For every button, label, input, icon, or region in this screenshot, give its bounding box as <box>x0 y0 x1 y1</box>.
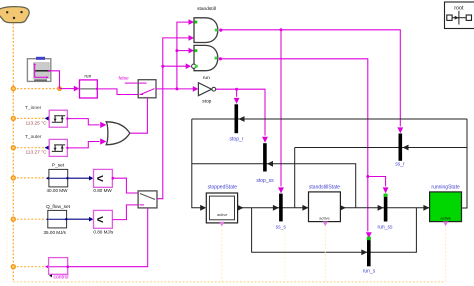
stop_r line <box>192 118 467 120</box>
arrow into ss_r from running <box>403 145 409 151</box>
wire bus->T_inner hysteresis <box>13 117 44 119</box>
wire standstillState.active -> bottom bus (dashed) <box>324 226 326 281</box>
hysteresis block 1 <box>45 110 69 127</box>
transition stop_ss <box>263 143 267 171</box>
arrow onto transition ss_r <box>397 127 403 133</box>
bus junction P_control row <box>11 265 15 269</box>
svg-text:35.00 MJ/s: 35.00 MJ/s <box>44 230 67 235</box>
arrow into stop_r from running <box>239 116 245 122</box>
svg-text:standstillState: standstillState <box>309 184 340 190</box>
wire run -> switch1 <box>97 89 138 95</box>
wire run signal up to AND1.u1 <box>177 22 190 89</box>
arrow into standstillState inPort <box>302 205 308 211</box>
arrow runningState.active output <box>443 222 448 227</box>
wire stoppedState.active -> bottom bus (dashed) <box>221 226 223 281</box>
less1 block <box>94 169 113 187</box>
svg-text:stop_r: stop_r <box>230 136 244 142</box>
svg-text:0.80 MJ/s: 0.80 MJ/s <box>93 230 114 235</box>
wire switch1 -> not gate <box>156 88 194 90</box>
arrow stoppedState.active output <box>219 222 224 227</box>
wire bus->P_control <box>13 266 45 268</box>
wire bus->T_outer hysteresis <box>13 147 44 149</box>
state stoppedState (initial, double border) <box>206 185 237 223</box>
svg-text:run: run <box>203 75 210 81</box>
svg-text:ss_r: ss_r <box>395 162 405 168</box>
wire bus->P_set <box>13 177 46 179</box>
bus junction T_outer row <box>11 146 15 150</box>
less2 block <box>94 210 113 228</box>
bottom orange dashed bus horizontal <box>13 281 445 283</box>
AND gate 1 (standstill) <box>194 6 222 42</box>
run_s loop <box>252 208 417 253</box>
arrow into less2 <box>89 217 93 222</box>
svg-text:stop: stop <box>202 98 211 104</box>
arrow into NOT gate <box>193 86 199 92</box>
main state row wire <box>238 207 429 209</box>
stop_ss line <box>192 164 356 208</box>
wire branch to run_ss <box>368 177 386 187</box>
block run (BooleanPassThrough) <box>80 74 99 98</box>
wire hyst2 -> OR <box>67 142 99 148</box>
wire P_control -> switch2 bottom <box>68 208 148 267</box>
svg-text:113.25 °C: 113.25 °C <box>26 120 48 126</box>
AND gate 2 <box>192 45 222 70</box>
svg-text:40.00 MW: 40.00 MW <box>47 188 69 193</box>
junction on stop signal wire <box>235 88 238 91</box>
wire bus->run row <box>13 88 59 90</box>
junction on AND1 output <box>280 28 283 31</box>
transition ss_r <box>399 134 403 161</box>
wire bus->Q_flow_set <box>13 218 46 220</box>
Q_flow_set block <box>46 210 68 228</box>
wire AND1 output -> ss_r drop <box>222 30 400 127</box>
svg-text:113.27 °C: 113.27 °C <box>26 149 48 155</box>
arrow onto transition stop_r <box>234 98 240 104</box>
arrow onto transition run_s <box>366 232 372 238</box>
junction on run signal wire <box>175 87 178 90</box>
arrow onto transition stop_ss <box>262 137 268 143</box>
switch2 <box>138 191 157 208</box>
arrow onto transition ss_s <box>278 187 284 193</box>
arrow into AND1.u2 <box>189 35 195 41</box>
svg-text:ss_s: ss_s <box>276 225 287 231</box>
wire junction -> run block <box>60 88 76 90</box>
wire AND2 output -> run_s drop <box>222 59 368 232</box>
junction on run signal riser <box>175 49 178 52</box>
arrow onto transition run_ss <box>383 187 389 193</box>
svg-text:run_ss: run_ss <box>377 225 393 231</box>
node less1 output <box>112 177 115 180</box>
wire less2 -> switch2.u3 <box>112 205 138 220</box>
root box top right <box>445 2 474 29</box>
wire less1 -> switch2.u1 <box>112 178 138 193</box>
arrow stoppedState outPort <box>238 205 244 211</box>
svg-text:T_inner: T_inner <box>25 105 42 111</box>
faint pale dashed vertical near left edge <box>6 143 8 281</box>
wire hyst1 -> OR <box>67 119 99 125</box>
arrow into ss_s <box>273 205 279 211</box>
right vertical from runningState <box>462 119 468 208</box>
svg-text:0.80 MW: 0.80 MW <box>93 188 112 193</box>
arrow into run_s <box>361 249 367 255</box>
svg-text:runningState: runningState <box>431 184 460 190</box>
svg-text:standstill: standstill <box>197 6 216 12</box>
arrow into runningState inPort <box>423 205 429 211</box>
wire display -> bus junction <box>49 71 59 89</box>
arrow into less1 <box>89 176 93 181</box>
svg-text:P_set: P_set <box>52 162 65 168</box>
wire NOT output -> stop_ss drop <box>216 89 265 135</box>
svg-text:root: root <box>454 5 464 11</box>
svg-text:active: active <box>217 212 228 217</box>
wire left vertical into stoppedState <box>192 119 201 208</box>
svg-text:<: < <box>97 174 104 186</box>
junction on AND2 output <box>366 175 369 178</box>
transition run_s <box>367 238 371 266</box>
P_set block <box>46 169 69 187</box>
transition stop_r <box>235 104 239 133</box>
wire switch2 out -> up to AND1.u2 <box>157 38 190 199</box>
bus connector icon (expandable connector, top-left) <box>0 7 29 23</box>
junction on switch2 signal <box>161 65 164 68</box>
arrow into OR input 1 <box>100 122 106 128</box>
faint pale dashed vertical below ss_s area <box>284 232 286 281</box>
svg-text:control: control <box>54 275 69 281</box>
arrow into AND2.u1 <box>189 48 195 54</box>
state runningState (active, green) <box>430 184 462 221</box>
svg-text:run_s: run_s <box>363 269 376 275</box>
state standstillState <box>309 184 341 221</box>
arrow into AND1.u1 <box>189 19 195 25</box>
wire Q_flow_set -> less2 <box>67 218 90 220</box>
wire branch to AND2.u2 <box>163 65 187 67</box>
main orange dashed bus vertical <box>12 23 14 282</box>
wire drop to stop_r <box>236 89 238 97</box>
arrow into run block <box>74 86 80 92</box>
bus junction at display drop <box>58 87 62 91</box>
svg-text:T_outer: T_outer <box>25 134 42 140</box>
arrow into stop_ss from standstill <box>267 161 273 167</box>
bus junction run row <box>11 87 15 91</box>
bus junction P_set row <box>11 176 15 180</box>
switch1 (logical switch) <box>138 80 156 98</box>
arrow into stoppedState inPort <box>200 205 206 211</box>
bus junction T_inner row <box>11 116 15 120</box>
svg-text:stoppedState: stoppedState <box>208 185 238 191</box>
svg-text:run: run <box>84 74 91 80</box>
svg-text:active: active <box>319 216 330 221</box>
wire branch to AND2.u1 <box>177 50 190 52</box>
P_control block <box>45 258 69 281</box>
transition ss_s <box>279 194 283 222</box>
NOT gate (stop) <box>198 75 215 105</box>
wire runningState.active -> bottom bus (dashed) <box>445 226 447 281</box>
hysteresis block 2 <box>45 139 69 156</box>
svg-text:<: < <box>97 215 104 227</box>
arrow into run_ss <box>378 205 384 211</box>
wire drop to ss_s <box>280 30 282 187</box>
arrow into AND2.u2 <box>186 63 192 69</box>
OR gate output wire -> switch1 bottom <box>130 98 148 133</box>
arrow into OR input 2 <box>100 138 106 144</box>
svg-text:Q_flow_set: Q_flow_set <box>46 204 71 210</box>
transition run_ss <box>384 194 388 222</box>
svg-text:stop_ss: stop_ss <box>256 178 274 184</box>
ss_r line <box>295 147 467 149</box>
OR gate <box>106 122 130 145</box>
display/interaction block <box>27 57 50 82</box>
arrow standstillState outPort <box>340 205 346 211</box>
svg-text:active: active <box>440 216 451 221</box>
arrow standstillState.active output <box>323 222 328 227</box>
wire P_set -> less1 <box>68 177 90 179</box>
svg-text:false: false <box>119 76 129 82</box>
bus junction Q_flow_set row <box>11 217 15 221</box>
